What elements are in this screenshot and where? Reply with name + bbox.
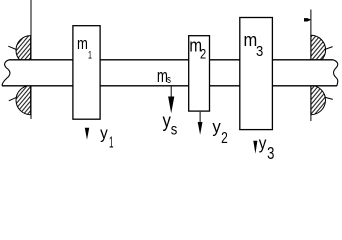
svg-text:m: m	[77, 36, 88, 54]
svg-text:s: s	[171, 122, 178, 139]
svg-text:2: 2	[221, 130, 228, 147]
svg-text:1: 1	[88, 49, 92, 62]
svg-text:y: y	[212, 116, 221, 137]
svg-text:3: 3	[256, 42, 263, 59]
svg-text:y: y	[259, 134, 267, 153]
svg-text:y: y	[163, 110, 172, 131]
svg-text:2: 2	[200, 45, 206, 62]
svg-text:1: 1	[109, 134, 114, 152]
svg-text:s: s	[167, 74, 171, 87]
svg-text:y: y	[100, 124, 109, 143]
svg-text:3: 3	[267, 145, 274, 160]
svg-text:m: m	[157, 67, 168, 86]
svg-text:m: m	[243, 29, 257, 50]
